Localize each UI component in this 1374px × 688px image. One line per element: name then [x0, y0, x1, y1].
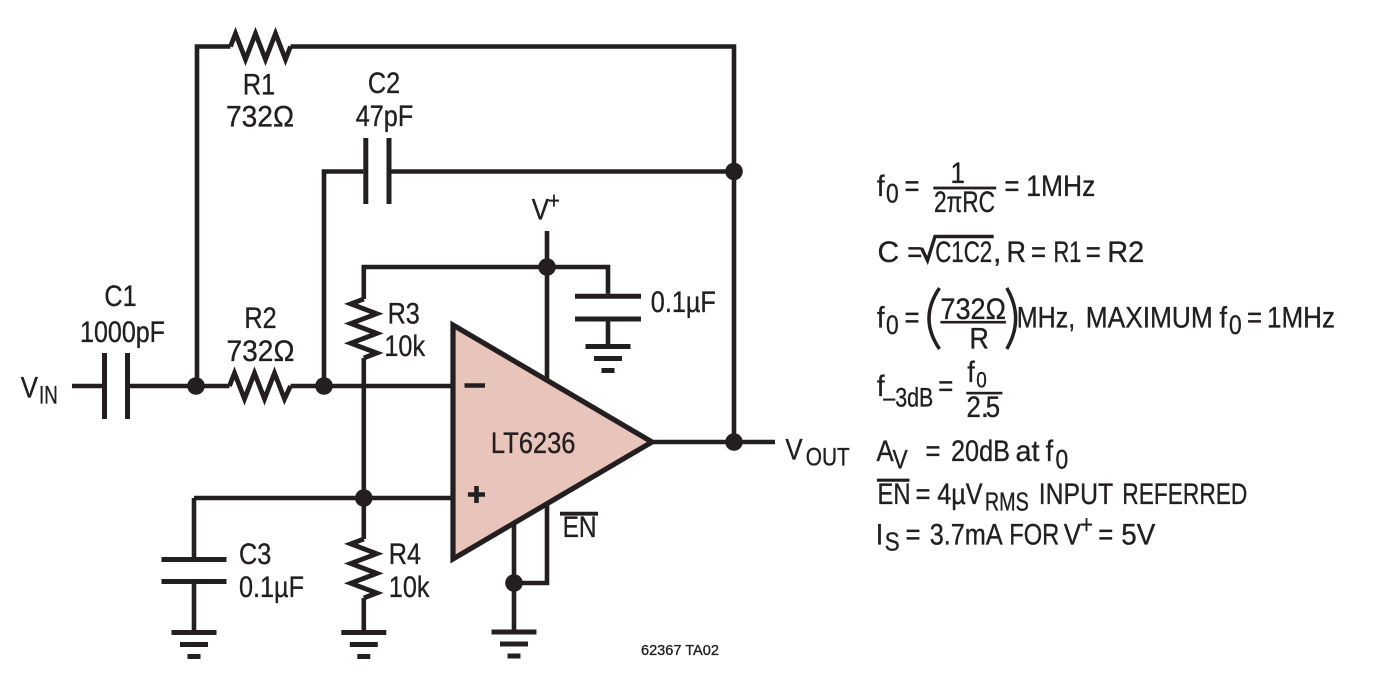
EN ground junction dot: [505, 574, 523, 592]
resistor R1: [231, 34, 291, 60]
radical sign: [922, 237, 994, 261]
svg-text:4µV: 4µV: [937, 477, 983, 511]
svg-text:=: =: [1086, 235, 1101, 268]
svg-text:3.7mA: 3.7mA: [930, 517, 1003, 551]
svg-text:10k: 10k: [384, 329, 425, 363]
svg-text:C: C: [878, 236, 900, 269]
svg-text:=: =: [1031, 235, 1046, 268]
svg-text:–3dB: –3dB: [883, 383, 933, 413]
resistor R2: [230, 373, 291, 399]
op-amp U1 LT6236: [453, 325, 652, 559]
svg-text:R1: R1: [243, 67, 275, 101]
svg-text:62367 TA02: 62367 TA02: [641, 643, 719, 659]
ground symbol (bypass): [586, 347, 631, 371]
wire: C3 to ground: [192, 584, 197, 632]
open paren: [929, 288, 940, 349]
svg-text:C2: C2: [368, 66, 400, 100]
svg-text:V: V: [1064, 518, 1082, 551]
wire: V- pin to ground: [512, 524, 517, 631]
svg-text:C3: C3: [239, 537, 271, 571]
svg-text:=: =: [1247, 301, 1262, 334]
close paren: [1007, 288, 1016, 349]
wire: V+ pin into op-amp: [545, 267, 550, 380]
svg-text:REFERRED: REFERRED: [1122, 477, 1247, 511]
wire: R4 top stub: [361, 498, 366, 539]
capacitor C2: [366, 138, 389, 204]
output junction dot: [725, 433, 743, 451]
svg-text:EN: EN: [878, 478, 911, 511]
svg-text:INPUT: INPUT: [1039, 477, 1113, 511]
svg-text:f: f: [967, 356, 975, 390]
svg-text:V: V: [893, 446, 909, 475]
svg-text:47pF: 47pF: [356, 99, 413, 133]
wire: left feedback vertical + top-left segment: [197, 47, 231, 387]
capacitor C1: [105, 353, 128, 419]
svg-text:0.1µF: 0.1µF: [651, 285, 716, 319]
svg-text:C1: C1: [104, 279, 136, 313]
svg-text:0: 0: [1229, 311, 1242, 340]
V+ rail junction dot: [538, 258, 556, 276]
wire: bypass cap to ground: [606, 322, 611, 345]
svg-text:V: V: [532, 193, 550, 226]
wire: C2 to output trunk: [392, 169, 735, 174]
svg-text:0: 0: [1056, 446, 1069, 475]
svg-text:20dB: 20dB: [951, 434, 1010, 468]
svg-text:0: 0: [886, 180, 899, 209]
wire: R3 bottom through minus wire to plus node: [361, 358, 366, 498]
svg-text:=: =: [905, 301, 920, 334]
svg-text:=: =: [905, 169, 920, 202]
svg-text:1MHz: 1MHz: [1267, 301, 1335, 334]
svg-text:S: S: [885, 528, 900, 557]
node A junction dot: [187, 377, 205, 395]
svg-text:=: =: [916, 477, 931, 510]
wire: op-amp output: [652, 440, 775, 445]
wire: VIN lead: [72, 384, 102, 389]
svg-text:10k: 10k: [389, 570, 430, 604]
svg-text:I: I: [876, 518, 884, 552]
svg-text:RMS: RMS: [985, 487, 1029, 516]
svg-text:0: 0: [886, 311, 899, 340]
svg-text:=: =: [1004, 169, 1019, 202]
svg-text:=: =: [925, 434, 940, 467]
svg-text:f: f: [1046, 435, 1054, 469]
wire: C3 branch down: [192, 498, 197, 557]
svg-text:V: V: [785, 433, 803, 466]
C2/trunk junction dot: [725, 163, 743, 181]
capacitor bypass 0.1uF: [575, 296, 641, 319]
svg-text:1000pF: 1000pF: [80, 315, 165, 349]
ground symbol (R4): [341, 633, 386, 657]
svg-text:R2: R2: [244, 301, 276, 335]
svg-text:=: =: [938, 369, 953, 402]
svg-text:,: ,: [993, 236, 1001, 269]
svg-text:C1C2: C1C2: [935, 235, 992, 269]
op-amp minus input symbol: [465, 383, 486, 388]
svg-text:=: =: [1098, 518, 1113, 551]
svg-text:2πRC: 2πRC: [934, 185, 995, 219]
svg-text:1MHz: 1MHz: [1026, 168, 1095, 202]
svg-text:0.1µF: 0.1µF: [239, 570, 304, 604]
ground symbol (EN/V-): [492, 632, 537, 656]
svg-text:f: f: [877, 301, 885, 335]
svg-text:5V: 5V: [1121, 519, 1156, 552]
resistor R4: [351, 539, 377, 598]
svg-text:A: A: [877, 434, 895, 467]
resistor R3: [351, 299, 377, 358]
wire: top feedback to output trunk: [291, 47, 735, 443]
label EN pin overline: [560, 512, 598, 516]
svg-text:R1: R1: [1054, 235, 1082, 269]
svg-text:+: +: [548, 187, 560, 214]
svg-text:R: R: [1007, 236, 1026, 270]
svg-text:OUT: OUT: [806, 443, 850, 471]
wire: R4 to ground: [361, 598, 366, 632]
wire: EN pin down: [514, 505, 547, 584]
wire: V+ stub: [545, 231, 550, 267]
svg-text:732Ω: 732Ω: [227, 335, 295, 368]
svg-text:R: R: [969, 322, 988, 356]
svg-text:FOR: FOR: [1009, 518, 1059, 551]
wire: C1 to node A: [130, 384, 230, 389]
svg-text:R3: R3: [388, 296, 420, 330]
svg-text:732Ω: 732Ω: [226, 101, 294, 134]
svg-text:IN: IN: [39, 381, 58, 409]
svg-text:MHz,: MHz,: [1017, 300, 1075, 334]
svg-text:LT6236: LT6236: [491, 426, 576, 459]
wire: plus input wire: [194, 496, 453, 501]
wire: C2 branch from node B: [324, 172, 363, 387]
svg-text:V: V: [21, 371, 39, 404]
svg-text:0: 0: [976, 368, 987, 393]
formula EN-bar = 4uVRMS INPUT REFERRED: [877, 479, 910, 482]
svg-text:f: f: [877, 170, 885, 204]
wire: V+ rail: [364, 267, 608, 299]
svg-text:f: f: [1220, 301, 1228, 335]
svg-text:R4: R4: [389, 537, 421, 571]
svg-text:R2: R2: [1107, 236, 1144, 270]
svg-text:=: =: [907, 235, 922, 268]
svg-text:MAXIMUM: MAXIMUM: [1086, 300, 1213, 334]
svg-text:=: =: [906, 518, 921, 551]
svg-text:at: at: [1016, 434, 1040, 468]
svg-text:+: +: [1080, 511, 1093, 540]
svg-text:EN: EN: [563, 510, 597, 544]
node B junction dot: [315, 377, 333, 395]
svg-text:2: 2: [967, 390, 981, 423]
svg-text:5: 5: [986, 390, 1000, 423]
ground symbol (C3): [172, 633, 217, 657]
wire: node B to op-amp inverting input: [291, 384, 454, 389]
plus-node junction dot: [355, 489, 373, 507]
capacitor C3: [162, 560, 227, 582]
op-amp plus input symbol: [468, 486, 485, 503]
